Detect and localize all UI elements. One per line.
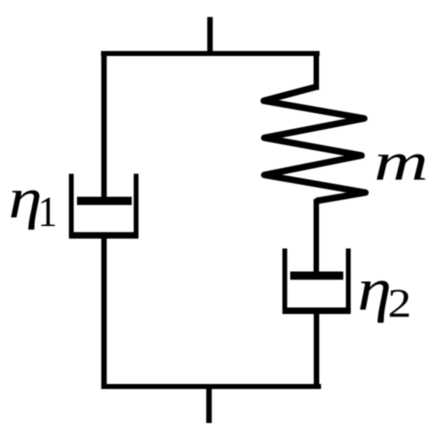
- dashpot eta2: cylinder cup: [285, 249, 349, 311]
- label m (spring constant): [377, 154, 425, 180]
- wire: bottom terminal stub: [206, 384, 212, 423]
- dashpot eta1: piston plate: [77, 197, 132, 205]
- dashpot eta1: cylinder cup: [71, 174, 136, 236]
- dashpot eta2: piston plate: [290, 271, 343, 279]
- dashpot eta2: cup bottom thick stroke: [283, 307, 351, 314]
- spring m: zigzag coil: [264, 87, 366, 201]
- wire: right branch lower segment: [314, 311, 320, 389]
- wire: left branch upper segment: [101, 51, 107, 198]
- wire: right branch upper segment: [314, 51, 320, 90]
- wire: left branch lower segment: [101, 236, 107, 389]
- label eta1: [11, 190, 55, 229]
- label eta2: [360, 281, 409, 323]
- dashpot eta1: cup bottom thick stroke: [69, 232, 138, 239]
- wire: top horizontal bar: [101, 51, 320, 56]
- wire: top terminal stub: [207, 17, 213, 56]
- wire: right branch middle segment (spring to dashpot): [314, 199, 320, 272]
- wire: bottom horizontal bar: [102, 384, 322, 389]
